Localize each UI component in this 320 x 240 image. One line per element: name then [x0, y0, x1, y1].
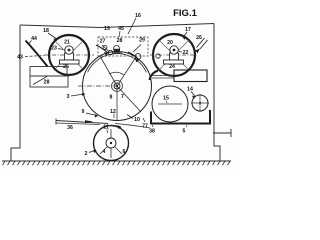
- svg-text:29: 29: [139, 38, 145, 44]
- delivery box: [174, 70, 207, 82]
- label 43 with dashed leader: [17, 55, 44, 61]
- FIG.1 title: [173, 8, 197, 19]
- left drum 21: [44, 35, 94, 75]
- web exit from nip: [115, 124, 150, 129]
- left drum diagonal spokes: [55, 41, 83, 69]
- right drum pedestal: [170, 53, 179, 60]
- feed arrow 26: [195, 35, 208, 53]
- svg-text:45: 45: [118, 26, 124, 32]
- svg-text:10: 10: [134, 117, 140, 123]
- svg-text:22: 22: [183, 50, 189, 56]
- svg-text:8: 8: [110, 95, 113, 101]
- collection tray: [151, 110, 210, 124]
- svg-text:24: 24: [169, 64, 175, 70]
- right drum diagonal spokes: [159, 40, 189, 70]
- label 77: [142, 118, 148, 130]
- svg-text:5: 5: [183, 129, 186, 135]
- svg-text:9: 9: [82, 109, 85, 115]
- label 9 with leader: [82, 109, 98, 118]
- svg-text:38: 38: [149, 129, 155, 135]
- left drum pedestal: [65, 53, 74, 60]
- web S-curve right drum to central drum: [150, 71, 159, 81]
- right drum 20: [150, 34, 198, 76]
- label 16 with leader: [128, 13, 141, 34]
- label 3 with arrow: [67, 93, 86, 100]
- dashed inker box: [98, 37, 148, 56]
- label 10 with leader: [127, 115, 140, 124]
- tick at drum left edge: [82, 84, 84, 89]
- svg-text:44: 44: [31, 36, 37, 42]
- pivot circle left: [156, 54, 160, 58]
- svg-text:11: 11: [103, 125, 109, 131]
- svg-text:4: 4: [103, 149, 106, 155]
- label 12 with tick: [110, 109, 116, 118]
- right drum hub: [170, 46, 178, 54]
- ground line with hatching: [2, 161, 231, 165]
- svg-text:20: 20: [167, 40, 173, 46]
- svg-text:28: 28: [44, 80, 50, 86]
- svg-text:43: 43: [17, 55, 23, 61]
- roller 15: [152, 86, 188, 122]
- central drum inner top arc: [88, 54, 147, 73]
- label 15: [163, 96, 169, 104]
- svg-text:3: 3: [67, 94, 70, 100]
- leader line to label 1: [213, 129, 231, 137]
- rotation arrows on central drum: [96, 45, 139, 60]
- web exit lines to delivery: [150, 76, 174, 79]
- svg-text:36: 36: [67, 125, 73, 131]
- central drum radial lines: [78, 56, 141, 121]
- roller 14: [191, 94, 209, 112]
- svg-text:FIG.1: FIG.1: [173, 8, 197, 19]
- svg-text:23: 23: [51, 46, 57, 52]
- bottom drum rotation arrow: [113, 125, 122, 129]
- svg-text:77: 77: [142, 124, 148, 130]
- plate clamp at drum apex: [112, 49, 122, 53]
- label 11 with tick: [103, 125, 109, 134]
- svg-text:26: 26: [196, 35, 202, 41]
- label 23: [51, 46, 63, 52]
- svg-text:19: 19: [104, 26, 110, 32]
- central drum 16: [83, 52, 152, 121]
- svg-text:2: 2: [85, 151, 88, 157]
- web entry line 44 (thick tangent): [26, 41, 48, 67]
- label 18 with leader: [43, 28, 57, 42]
- inker rollers: [102, 45, 141, 60]
- label 17 with leader: [183, 27, 191, 40]
- label 44 with arrow: [29, 36, 37, 44]
- label 5: [183, 125, 187, 135]
- svg-text:28: 28: [117, 38, 123, 44]
- ink fountain boxes lower-left: [30, 67, 68, 88]
- svg-text:21: 21: [64, 40, 70, 46]
- svg-text:7: 7: [121, 94, 124, 100]
- left drum hub: [65, 46, 73, 54]
- bottom drum 2: [94, 126, 129, 161]
- svg-text:17: 17: [185, 27, 191, 33]
- svg-text:6: 6: [123, 149, 126, 155]
- svg-text:27: 27: [100, 39, 106, 45]
- svg-text:14: 14: [187, 87, 193, 93]
- central drum hub 7/8: [112, 81, 123, 92]
- right drum centerline: [150, 54, 198, 56]
- label 38: [149, 125, 155, 135]
- label 2 with arrow: [85, 150, 97, 157]
- machine frame outline: [11, 24, 220, 162]
- web feed line 36: [56, 119, 108, 125]
- label 45 with leader: [118, 26, 124, 37]
- svg-text:12: 12: [110, 109, 116, 115]
- label 14 with arrow: [187, 87, 195, 100]
- svg-text:25: 25: [63, 64, 69, 70]
- left drum centerline: [44, 54, 94, 56]
- label 22 with dash: [179, 50, 188, 56]
